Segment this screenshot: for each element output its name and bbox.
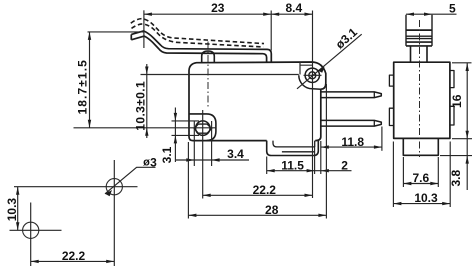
ext line lever end — [270, 11, 272, 51]
svg-text:3.1: 3.1 — [160, 146, 174, 163]
svg-text:10.3±0.1: 10.3±0.1 — [133, 81, 147, 131]
terminal pin 1 — [321, 92, 382, 98]
terminal pin 2 — [321, 120, 382, 126]
svg-text:16: 16 — [450, 94, 464, 108]
lever released position dashed upper — [131, 19, 264, 44]
lever arm top edge — [131, 31, 271, 62]
ext line hex right — [211, 121, 213, 166]
arrow 3.4 right — [212, 158, 220, 161]
ext line 11.5 right — [314, 147, 316, 174]
ext line body left — [187, 142, 189, 219]
plunger dome — [202, 51, 215, 62]
arrow 8.4 right — [305, 13, 313, 16]
dim 28 line — [188, 214, 326, 216]
arrow 10.3pm bottom — [145, 128, 148, 136]
arrow 3.4 left — [186, 158, 194, 161]
svg-text:2: 2 — [341, 158, 348, 172]
hole top-right crosshair horizontal — [304, 74, 322, 76]
button top edge — [406, 29, 432, 31]
arrow 16 top — [466, 63, 469, 71]
arrow 16 bottom — [466, 131, 469, 139]
mounting boss top-right inner arc — [299, 75, 313, 89]
arrow 3.1 top — [174, 113, 177, 121]
switch body outline — [189, 62, 326, 141]
mounting boss bottom-left — [189, 114, 216, 141]
svg-text:3.4: 3.4 — [227, 147, 244, 161]
arrow 10.3end left — [393, 202, 401, 205]
dim 10.3pm line — [146, 64, 148, 138]
svg-text:ø: ø — [143, 157, 150, 169]
ext line lever pivot — [143, 10, 145, 48]
ext line pin tip — [381, 127, 383, 151]
svg-text:ø3.1: ø3.1 — [333, 25, 360, 52]
arrow 23 right — [263, 13, 271, 16]
dim 16 line — [466, 63, 468, 190]
arrow 22.2 right — [305, 194, 313, 197]
arrow 22.2hp left — [31, 260, 39, 263]
dim 5 line — [406, 13, 457, 15]
hole pattern lower crosshair vertical — [30, 203, 32, 267]
svg-text:10.3: 10.3 — [414, 191, 438, 205]
arrow 18.7 top — [88, 32, 91, 40]
button bottom edge — [406, 45, 432, 47]
pin 2 division — [373, 120, 375, 126]
arrow 5 left — [406, 13, 414, 16]
svg-text:10.3: 10.3 — [5, 198, 19, 222]
arrow 23 left — [144, 13, 152, 16]
arrow 10.3hp bottom — [16, 222, 19, 230]
svg-text:7.6: 7.6 — [412, 171, 429, 185]
arrow 2 right outside — [321, 169, 329, 172]
ext line base right — [437, 157, 439, 187]
arrow 22.2 left — [203, 194, 211, 197]
arrow 11.5 right — [307, 169, 315, 172]
solder lug inner line 2 — [282, 151, 315, 153]
hole bottom-left center vertical — [202, 110, 204, 199]
svg-text:28: 28 — [265, 203, 279, 217]
hole pattern upper crosshair vertical — [113, 160, 115, 266]
button groove 3 — [406, 41, 432, 43]
leader diameter 3 — [105, 167, 156, 194]
ext line 2 right — [320, 141, 322, 174]
arrow 11.8 right — [374, 145, 382, 148]
arrow 10.3pm top — [145, 67, 148, 75]
arrow 7.6 right — [430, 182, 438, 185]
dim 10.3 end view line — [393, 203, 450, 205]
arrow 5 right — [424, 13, 432, 16]
arrow 3.8 bottom outside — [466, 156, 469, 164]
arrow 8.4 left — [271, 13, 279, 16]
arrow 7.6 left — [403, 182, 411, 185]
arrow 10.3end right — [442, 202, 450, 205]
hole pattern lower circle — [23, 222, 39, 238]
hole top-right outer circle — [305, 68, 319, 82]
arrow leader 3 — [105, 190, 112, 196]
arrow 28 right — [318, 214, 326, 217]
end view latch tab left upper — [389, 75, 393, 86]
hole bottom-left centerline horizontal — [74, 127, 217, 129]
dim 3.4 line — [176, 159, 249, 161]
dim 7.6 line — [403, 183, 438, 185]
ext line body left bottom — [392, 142, 394, 208]
button groove 1 — [406, 35, 432, 37]
button groove 2 — [406, 38, 432, 40]
arrow 10.3hp top — [16, 187, 19, 195]
lever tip face — [130, 34, 132, 39]
ext line body right bottom — [449, 142, 451, 208]
dim 11.5 and 2 line — [267, 170, 352, 172]
solder lug bend edge — [314, 141, 316, 147]
ext line hole center vertical long — [312, 11, 314, 199]
arrow 11.8 left — [321, 145, 329, 148]
ext line body top right — [452, 62, 472, 64]
hole pattern upper crosshair horizontal — [14, 186, 138, 188]
ext line circle top — [172, 120, 200, 122]
svg-text:22.2: 22.2 — [253, 183, 277, 197]
top step line — [300, 62, 313, 75]
boss bottom line — [312, 88, 321, 90]
end view latch tab left lower — [389, 108, 393, 125]
svg-text:11.8: 11.8 — [341, 135, 364, 149]
dim 10.3 hole pattern line — [17, 187, 19, 231]
svg-text:3.8: 3.8 — [449, 170, 463, 187]
ext line circle bottom — [172, 134, 200, 136]
button stem — [411, 46, 428, 62]
end view latch tab right upper — [450, 71, 454, 88]
ext line 11.5 left — [266, 157, 268, 175]
hole bottom-left hex slot — [194, 124, 211, 133]
end view base block — [403, 139, 438, 156]
hole pattern lower crosshair horizontal — [10, 229, 62, 231]
solder lug inner fold — [273, 141, 315, 147]
dim 22.2 hole pattern line — [31, 260, 115, 262]
svg-text:3: 3 — [150, 155, 157, 169]
end view centerline — [419, 20, 421, 157]
end view body — [394, 62, 450, 138]
hole top-right inner circle — [309, 72, 316, 79]
svg-text:8.4: 8.4 — [285, 1, 302, 15]
dim 3.1 line — [174, 108, 176, 163]
dim 23 and 8.4 line — [144, 13, 313, 15]
svg-text:18.7±1.5: 18.7±1.5 — [75, 59, 89, 114]
pin 1 division — [373, 92, 375, 98]
arrow 18.7 bottom — [88, 120, 91, 128]
arrow 11.5 left — [267, 169, 275, 172]
arrow 3.1 bottom — [174, 135, 177, 143]
solder lug outline — [267, 141, 319, 156]
arrow 22.2hp right — [106, 260, 114, 263]
body left edge — [189, 75, 267, 141]
ext line hex left — [193, 121, 195, 166]
svg-text:22.2: 22.2 — [62, 249, 86, 263]
arrow leader 3.1 — [318, 67, 325, 73]
hole bottom-left circle — [196, 121, 211, 136]
case parting line — [141, 74, 299, 76]
end view latch tab right lower — [450, 106, 454, 125]
dim 22.2 line — [203, 194, 313, 196]
svg-text:23: 23 — [211, 1, 225, 15]
lever arm bottom edge — [131, 36, 266, 61]
end view button sides — [406, 15, 432, 46]
lever released position dashed lower — [132, 24, 264, 47]
dim 18.7 line — [89, 32, 91, 128]
plunger centerline — [207, 42, 209, 109]
ext line base bottom right — [440, 155, 472, 157]
ext line base left — [402, 157, 404, 187]
ext line body bottom right — [452, 138, 472, 140]
arrow 28 left — [188, 214, 196, 217]
svg-text:5: 5 — [449, 2, 456, 16]
hole pattern upper circle — [106, 179, 122, 195]
ext line 18.7 top — [88, 31, 144, 33]
leader diameter 3.1 — [297, 34, 362, 89]
ext line boss right — [325, 84, 327, 219]
svg-text:11.5: 11.5 — [281, 158, 304, 172]
dim 11.8 line — [321, 146, 382, 148]
